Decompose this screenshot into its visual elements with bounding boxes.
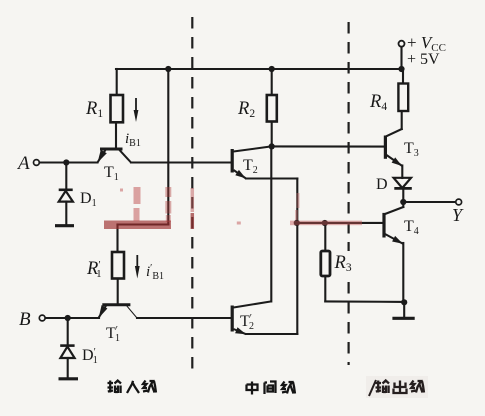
wire: D1 top lead [65, 163, 67, 190]
stage label: input stage (Chinese, hand strokes) [108, 381, 157, 394]
wire: input B line [45, 317, 99, 319]
wire: R1 top lead [116, 69, 118, 95]
wire: T4 collector diagonal [385, 207, 403, 214]
wire: T3 emitter to diode D [401, 166, 403, 179]
watermark red dashes on divider [191, 188, 195, 229]
node: emitters join [294, 220, 300, 226]
wire: ground stub below T4 node [403, 302, 405, 316]
node: B to D1-prime [65, 315, 71, 321]
transistor T3 [385, 136, 402, 167]
wire: R2 node down to T2-prime collector [270, 146, 272, 301]
stage label: output stage [369, 380, 424, 396]
node: rail to R1-prime feed [165, 66, 171, 72]
transistor T1 [98, 149, 132, 163]
svg-text:T′2: T′2 [240, 313, 254, 332]
wire: input A line [39, 161, 97, 163]
char jian [265, 382, 276, 395]
node: A to D1 [63, 159, 69, 165]
wire: R1 bottom lead to T1 base [115, 122, 117, 149]
ground below D1 [55, 224, 74, 227]
watermark red tint on feed vertical [165, 187, 171, 222]
node: T4 emitter ground [401, 299, 407, 305]
svg-text:+ 5V: + 5V [407, 51, 440, 68]
transistor T1-prime [99, 305, 137, 318]
diode D1 [59, 190, 73, 202]
current arrow iB1-prime [135, 255, 140, 279]
transistor T2 [131, 146, 271, 178]
resistor R3 [321, 251, 330, 276]
wire: R3 bottom to T4 emitter node [325, 300, 404, 303]
wire: R2 top lead [271, 69, 273, 95]
watermark red band over feed wire corner [104, 221, 171, 230]
dashed divider right [348, 22, 350, 365]
char shu [376, 381, 390, 394]
svg-text:T′1: T′1 [106, 325, 120, 344]
wire: T3 collector diagonal [386, 129, 401, 136]
watermark red dashes left [133, 187, 141, 221]
node: output [400, 199, 406, 205]
ground below T4 emitter [392, 317, 414, 320]
terminal B circle [39, 315, 45, 321]
wire: R1-prime bottom to T1-prime base [117, 279, 119, 305]
node: rail to R2 [269, 66, 275, 72]
watermark smudge over output stage label [366, 376, 428, 398]
char shu [108, 381, 122, 394]
char ji [143, 381, 156, 393]
svg-text:A: A [16, 153, 30, 174]
node: R2 bottom [269, 143, 275, 149]
wire: R2 bottom lead to node [271, 122, 273, 147]
wire: T4 emitter vertical [402, 243, 404, 302]
wire: emitter node to T4 base [297, 222, 384, 224]
node: rail to Vcc [398, 66, 404, 72]
wire: T1-prime collector to T2-prime base [137, 317, 232, 319]
node: R3 top [322, 220, 328, 226]
dashed divider left [191, 17, 193, 371]
wire: T1 collector to T2 base [131, 161, 232, 163]
wire: top Vcc rail [116, 68, 402, 70]
wire: output node down to T4 collector [402, 202, 404, 207]
resistor R1 [111, 95, 124, 122]
wire: T2-prime emitter vertical up to node [296, 223, 298, 334]
wire: R3 bottom lead [324, 276, 326, 301]
wire: R4 top lead [402, 69, 404, 84]
wire: Vcc terminal drop [400, 47, 402, 69]
svg-text:D′1: D′1 [82, 347, 98, 366]
watermark red scribble near emitter wire [297, 193, 299, 220]
wire: Vcc feed horizontal at y224 [118, 223, 169, 225]
resistor R2 [267, 95, 277, 122]
watermark red line over T4 base wire [290, 221, 362, 226]
resistor R1-prime [112, 252, 124, 279]
wire: node to T3 base [272, 145, 385, 147]
ground below D1-prime [59, 377, 79, 380]
leading slash mark [369, 380, 376, 396]
stage label: middle stage [247, 382, 296, 395]
diode D1-prime [60, 346, 74, 358]
wire: down to R1-prime [116, 225, 118, 253]
wire: D1 to ground [65, 202, 67, 225]
transistor T2-prime [232, 301, 271, 334]
wire: T2 emitter horizontal [246, 177, 297, 179]
wire: D cathode to output node [402, 189, 404, 202]
terminal Y circle [456, 199, 462, 205]
char chu [394, 381, 407, 394]
diode D [394, 178, 412, 189]
wire: R4 bottom to T3 collector [401, 111, 403, 129]
char ji [411, 381, 424, 393]
wire: D1-prime top lead [67, 318, 69, 345]
wire: T2 emitter vertical to node [296, 179, 298, 223]
svg-text:D: D [376, 176, 388, 193]
wire: D1-prime to ground [67, 358, 69, 378]
char zhong [247, 382, 258, 395]
wire: output node to Y [403, 201, 456, 203]
svg-text:B: B [19, 309, 31, 330]
label R3 [334, 251, 355, 274]
transistor T4 [384, 213, 403, 244]
char ru [127, 381, 139, 393]
current arrow iB1 [134, 98, 139, 122]
wire: R3 top lead [324, 223, 326, 251]
char ji [282, 382, 295, 394]
svg-text:R′1: R′1 [86, 259, 102, 280]
terminal A circle [34, 160, 40, 166]
wire: T2-prime emitter horizontal [246, 333, 297, 335]
wire: Vcc feed vertical to R1-prime [167, 69, 169, 225]
resistor R4 [398, 84, 408, 112]
terminal Vcc circle [399, 41, 405, 47]
